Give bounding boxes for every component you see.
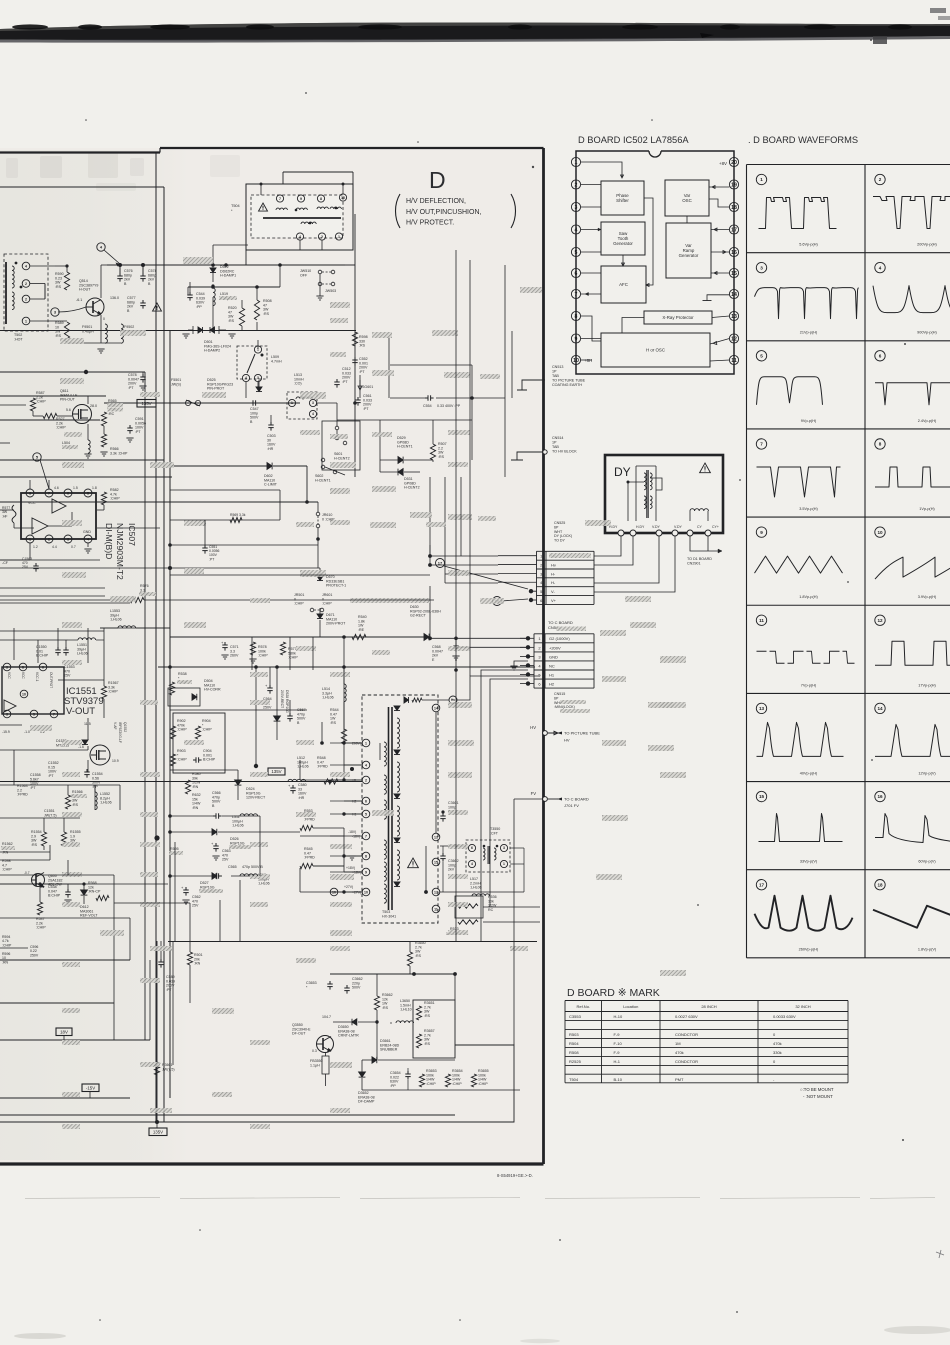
svg-text:9: 9: [365, 870, 367, 874]
svg-text:R503: R503: [569, 1032, 579, 1037]
diode D1555: [82, 740, 88, 745]
svg-text:+8V: +8V: [719, 161, 727, 166]
svg-text:Shifter: Shifter: [616, 198, 629, 203]
svg-text:CRNT-LMTR: CRNT-LMTR: [338, 1034, 359, 1038]
T503 primary winding: [384, 742, 386, 766]
svg-text::RS: :RS: [382, 1006, 389, 1010]
svg-text:H-1: H-1: [614, 1059, 621, 1064]
svg-text:H-10: H-10: [614, 1014, 623, 1019]
wire pin3 stub: [581, 206, 601, 208]
DY bottom pins: [618, 530, 624, 536]
svg-text:PROTECT-1: PROTECT-1: [326, 584, 346, 588]
capacitor C566: [213, 815, 216, 817]
wire x120 down: [119, 265, 121, 273]
svg-text::RS: :RS: [72, 803, 79, 807]
wire stubs to CN525 from mid: [429, 545, 431, 556]
hatched thick wire V-: [350, 598, 430, 603]
svg-text:NC: NC: [549, 663, 555, 668]
svg-text:18: 18: [877, 882, 883, 887]
svg-text:+27V): +27V): [352, 891, 361, 895]
svg-text::CHIP: :CHIP: [177, 758, 187, 762]
svg-text:HV: HV: [564, 738, 570, 743]
G2 rail: [170, 636, 424, 638]
wire bus vertical x164: [163, 187, 165, 1122]
pin number 17 callout: [436, 559, 445, 568]
svg-text:11.5: 11.5: [84, 722, 91, 726]
svg-text:2: 2: [25, 282, 27, 286]
junction x190: [189, 282, 191, 292]
wire rail y330: [0, 330, 356, 332]
coil L509 dashed box: [237, 346, 267, 379]
svg-text:H-CENT1: H-CENT1: [315, 478, 331, 482]
capacitor C544: [189, 292, 191, 295]
wire rail y420 segment: [337, 419, 380, 421]
svg-text:1.1μH: 1.1μH: [310, 1063, 320, 1067]
CN525 left wires: [498, 555, 537, 557]
faint fold line bottom: [25, 1198, 160, 1199]
wire CN513 tab: [522, 380, 545, 390]
T503 secondary winding: [397, 718, 400, 748]
wire y374 stub: [490, 373, 543, 375]
wire rails IC1551 zone: [0, 724, 22, 726]
svg-text:TO DY: TO DY: [554, 539, 566, 543]
wire DY CY pins to D1 board: [690, 536, 722, 551]
CN525 V- V+ dots: [529, 589, 533, 593]
svg-text:1: 1: [760, 177, 763, 182]
wire pin5 stub: [581, 251, 601, 253]
wire x430 down from CN525: [429, 600, 431, 637]
svg-text:H-CENT1: H-CENT1: [397, 445, 413, 449]
svg-text:NJM2903M-T2: NJM2903M-T2: [115, 523, 125, 580]
svg-text:1: 1: [29, 537, 31, 541]
svg-text:3: 3: [760, 265, 763, 270]
svg-text:IC507: IC507: [127, 523, 137, 546]
wire rail y1115: [0, 1114, 455, 1116]
svg-text:2: 2: [879, 177, 882, 182]
svg-text:COATING EARTH: COATING EARTH: [552, 383, 582, 387]
wire x256 vertical: [255, 667, 257, 766]
svg-text:V.DY: V.DY: [674, 525, 683, 529]
coil L519: [213, 288, 215, 306]
wire x514 vertical FV: [513, 799, 515, 1045]
resistor R1565: [61, 832, 66, 846]
wire ramp to pin16: [711, 251, 729, 254]
diode D522: [210, 268, 216, 273]
wire x160 vertical: [159, 477, 161, 528]
CN515 row6 wire down: [490, 679, 528, 907]
resistor R1564: [41, 832, 46, 846]
coil L513 dashed box: [287, 392, 317, 419]
svg-text:Hv: Hv: [551, 562, 556, 567]
left edge rail y948: [0, 947, 28, 949]
wire pin8 vertical to H or OSC: [581, 316, 601, 341]
svg-text::RC: :RC: [108, 412, 115, 416]
svg-text:PIN-PROT: PIN-PROT: [207, 387, 225, 391]
wire verticals bottom left: [13, 750, 15, 785]
DY winding taps: [628, 482, 644, 521]
svg-text::RS: :RS: [424, 1042, 431, 1046]
DY core lines: [646, 470, 648, 518]
capacitor C1550: [57, 647, 59, 650]
svg-text::CHIP: :CHIP: [322, 602, 332, 606]
svg-text::CHIP: :CHIP: [478, 1082, 488, 1086]
resistor R544: [341, 729, 346, 744]
svg-text:H/V DEFLECTION,: H/V DEFLECTION,: [406, 198, 466, 205]
capacitor C577: [142, 300, 144, 303]
schematic top border right segment: [160, 147, 544, 149]
resistor R576: [130, 597, 144, 602]
svg-text:2: 2: [25, 297, 27, 301]
svg-text::PT: :PT: [30, 786, 36, 790]
junction bus 838: [154, 835, 159, 840]
coil L511 sym: [240, 814, 258, 816]
svg-text:4.4: 4.4: [52, 545, 57, 549]
svg-text:C554: C554: [423, 404, 432, 408]
capacitor C547: [250, 402, 253, 404]
coil L1552: [95, 792, 97, 810]
svg-text:4: 4: [879, 265, 882, 270]
svg-text:40Vp-p(H): 40Vp-p(H): [800, 771, 818, 775]
svg-text:2: 2: [48, 537, 50, 541]
svg-text:5: 5: [575, 250, 578, 256]
gnd flyback: [348, 855, 355, 857]
resistor R566: [101, 434, 106, 447]
capacitor C591: [129, 425, 131, 428]
resistor R3654: [445, 1074, 450, 1087]
wires area N: [454, 974, 456, 1000]
svg-text:6P: 6P: [554, 525, 559, 529]
svg-text::PT: :PT: [128, 386, 134, 390]
resistor R577b: [280, 642, 285, 655]
wire y884 ext: [114, 883, 168, 885]
capacitor C503: [270, 422, 272, 425]
capacitor C554: [425, 397, 428, 399]
rail y781 long: [0, 781, 362, 783]
coil L504: [88, 440, 90, 453]
waveform cell 18: [875, 880, 885, 890]
capacitor C580: [292, 785, 294, 788]
flyback HV out diode: [404, 697, 409, 703]
svg-text:0.0027 630V: 0.0027 630V: [675, 1014, 698, 1019]
waveform cell 10: [875, 527, 885, 537]
svg-text:V+: V+: [551, 598, 557, 603]
svg-text:1M: 1M: [675, 1041, 681, 1046]
svg-text:○:TO BE MOUNT: ○:TO BE MOUNT: [800, 1087, 834, 1092]
transistor Q514: [86, 298, 104, 316]
svg-text:10.9: 10.9: [112, 759, 119, 763]
resistor R1566: [65, 795, 70, 809]
svg-text:T503: T503: [382, 910, 390, 914]
svg-text:TO PICTURE TUBE: TO PICTURE TUBE: [552, 379, 586, 383]
wire right of T504: [354, 214, 356, 265]
wire q514 top: [55, 265, 67, 267]
svg-text:TO C BOARD: TO C BOARD: [564, 797, 589, 802]
wire rail y420: [0, 419, 100, 421]
svg-text:15: 15: [434, 860, 438, 864]
svg-text::MINI(LOCK): :MINI(LOCK): [554, 705, 575, 709]
IC507 opamp1: [52, 499, 66, 513]
svg-text:500V: 500V: [352, 986, 361, 990]
IC507 opamp2: [32, 518, 48, 534]
svg-text:13: 13: [759, 706, 765, 711]
wire long from IC1551 to CN area: [100, 627, 170, 629]
junction: [84, 370, 88, 374]
svg-text:7: 7: [279, 197, 281, 201]
svg-text::CHIP: :CHIP: [452, 1082, 462, 1086]
svg-text:DF-OUT: DF-OUT: [292, 1032, 306, 1036]
resistor R3601: [154, 1062, 159, 1075]
svg-text:12: 12: [434, 890, 438, 894]
svg-text:7: 7: [48, 491, 50, 495]
T504 wires: [245, 184, 247, 265]
svg-text:3: 3: [575, 205, 578, 211]
svg-text::CHIP: :CHIP: [56, 426, 66, 430]
IC502 left pins 1-10: [571, 157, 580, 166]
IC502 block Saw: [601, 222, 645, 255]
jumper JW510: [318, 270, 322, 274]
18V box: [56, 1028, 72, 1036]
IC1551 pin 10 circ: [20, 690, 28, 698]
waveform cell 9: [756, 527, 766, 537]
waveform cell 6: [875, 351, 885, 361]
svg-text:AFC: AFC: [619, 282, 628, 287]
svg-text:12Vp-p(V): 12Vp-p(V): [918, 771, 936, 775]
svg-text:2kV: 2kV: [448, 868, 455, 872]
waveform cell 5: [756, 351, 766, 361]
capacitor C3653: [329, 981, 331, 984]
svg-text:1: 1: [25, 319, 27, 323]
svg-text:1: 1: [575, 160, 578, 166]
wire damper verticals: [256, 287, 258, 300]
svg-text:T3550: T3550: [490, 827, 500, 831]
svg-text::HR: :HR: [267, 447, 274, 451]
wire var osc to ramp: [686, 216, 688, 223]
IC1551 opamp: [4, 700, 16, 712]
svg-text::PT: :PT: [363, 407, 369, 411]
wire y568 long: [170, 567, 320, 569]
svg-text:2: 2: [365, 778, 367, 782]
svg-text:9Vp-p(H): 9Vp-p(H): [801, 419, 817, 423]
coil F9501: [105, 324, 107, 343]
svg-text:6: 6: [575, 271, 578, 277]
svg-text:21Vp-p(H): 21Vp-p(H): [800, 331, 818, 335]
photocopy hatch smudges: [183, 257, 213, 264]
svg-text:JW503: JW503: [325, 289, 336, 293]
svg-text:1: 1: [503, 862, 505, 866]
wire HV to picture tube: [544, 732, 546, 734]
svg-text:0.0033 630V: 0.0033 630V: [773, 1014, 796, 1019]
Q611 wires: [87, 396, 89, 404]
svg-text:Q1552: Q1552: [123, 722, 127, 732]
capacitor C512: [336, 379, 338, 382]
DY internal winding H: [635, 466, 637, 521]
gnd JW510: [319, 274, 321, 296]
svg-text:200V): 200V): [352, 742, 361, 746]
svg-text:200V-RECT: 200V-RECT: [280, 690, 284, 708]
L509 winding: [247, 354, 255, 373]
wire rail y974: [330, 973, 455, 975]
capacitor C3601: [442, 813, 444, 816]
IC502 outline: [576, 151, 734, 374]
svg-text:2.4Vp-p(H): 2.4Vp-p(H): [918, 419, 937, 423]
wire rail y1003: [0, 1002, 114, 1004]
wire bus vertical x156: [156, 148, 950, 156]
svg-text:20: 20: [731, 160, 737, 166]
svg-text:6P: 6P: [554, 696, 559, 700]
wire x318 vertical: [317, 545, 319, 568]
svg-text:J701 FV: J701 FV: [564, 803, 579, 808]
capacitor C576: [119, 273, 121, 276]
svg-text::CHIP: :CHIP: [108, 690, 118, 694]
diode D3652: [359, 1072, 366, 1077]
svg-text:H-OUT: H-OUT: [79, 288, 91, 292]
junction dots CN area: [454, 668, 458, 672]
svg-text::CHIP: :CHIP: [2, 943, 12, 947]
junction dots flyback: [342, 741, 345, 744]
svg-text:0 :CHIP: 0 :CHIP: [322, 517, 335, 521]
T502 pin wires: [30, 265, 55, 267]
svg-text:6: 6: [365, 799, 367, 803]
svg-text:+8H: +8H: [584, 358, 592, 363]
diode D501 pair: [198, 327, 203, 333]
svg-text:B:CHIP: B:CHIP: [48, 894, 61, 898]
wire Q611 gate: [57, 415, 72, 417]
coil L517: [472, 894, 490, 896]
capacitor C3654: [407, 1071, 409, 1074]
IC1551 pin box: [2, 667, 64, 714]
wire rail y1098: [0, 1097, 130, 1099]
capacitor C567: [289, 713, 291, 716]
svg-text:11: 11: [731, 358, 737, 364]
T502 pins: [22, 262, 30, 270]
svg-text::PP: :PP: [390, 1084, 396, 1088]
svg-text:25V: 25V: [22, 565, 29, 569]
svg-text:-1.0: -1.0: [24, 730, 30, 734]
verticals lower mid: [219, 900, 221, 941]
svg-text::RE: :RE: [358, 628, 365, 632]
connector CN515 table: [534, 633, 594, 635]
svg-text:3.9Vp-p(H): 3.9Vp-p(H): [918, 595, 937, 599]
svg-text:R504: R504: [569, 1041, 579, 1046]
resistor R507: [430, 444, 435, 460]
svg-text::CHIP: :CHIP: [294, 602, 304, 606]
T502 winding: [12, 266, 14, 288]
note parens: [396, 194, 401, 228]
svg-text:1.8: 1.8: [92, 486, 97, 490]
svg-text:6: 6: [67, 491, 69, 495]
svg-text:Generator: Generator: [613, 241, 633, 246]
svg-text:DF-DAMP: DF-DAMP: [358, 1100, 375, 1104]
svg-text::CHIP: :CHIP: [258, 654, 268, 658]
svg-text:6: 6: [879, 353, 882, 358]
svg-text:F9502: F9502: [124, 325, 134, 329]
svg-text:CN513: CN513: [552, 365, 563, 369]
resistor R545: [300, 863, 313, 868]
svg-text:25V: 25V: [222, 858, 229, 862]
svg-text:4: 4: [25, 264, 27, 268]
svg-text:120V-RECT: 120V-RECT: [246, 796, 266, 800]
svg-text::CHIP: :CHIP: [36, 926, 46, 930]
wire var osc to pin19: [709, 186, 729, 189]
IC502 block H or OSC: [601, 333, 710, 367]
wire CN525 row wires long: [430, 555, 498, 557]
IC502 block Var: [665, 180, 709, 216]
bottom corner smudges: [14, 1333, 66, 1339]
T504 core: [263, 217, 341, 219]
resistor R589: [64, 322, 69, 342]
svg-text:10: 10: [877, 530, 883, 535]
diode D612: [81, 890, 88, 895]
svg-text:900Vp-p(H): 900Vp-p(H): [917, 331, 937, 335]
resistor R598: [352, 332, 357, 346]
svg-text:-1.6: -1.6: [78, 745, 84, 749]
diode D602: [267, 463, 272, 470]
svg-text:3: 3: [67, 537, 69, 541]
coil FB3550: [322, 1056, 329, 1074]
svg-text:FV: FV: [531, 791, 537, 796]
resistor R553: [300, 825, 313, 830]
diode D524: [235, 780, 242, 785]
svg-text:SG601: SG601: [362, 385, 373, 389]
wire x512 vertical: [511, 331, 513, 398]
fuse F5501: [185, 400, 190, 405]
svg-text:DI-M(B)D: DI-M(B)D: [104, 523, 114, 559]
coil L3650: [396, 1021, 414, 1023]
svg-text::RS: :RS: [438, 455, 445, 459]
svg-text:GND: GND: [549, 654, 558, 659]
photocopy specks: [532, 166, 534, 168]
capacitor C538: [67, 889, 69, 892]
schematic top border step: [159, 148, 161, 153]
-15V box: [82, 1084, 99, 1092]
IC502 top notch: [649, 145, 661, 157]
coil L514: [344, 684, 346, 702]
svg-text:4: 4: [312, 412, 314, 416]
svg-text:260Vp-p(H): 260Vp-p(H): [799, 948, 819, 952]
T503 HV diodes: [394, 706, 400, 711]
svg-text:7: 7: [365, 834, 367, 838]
svg-text:WHT: WHT: [554, 530, 563, 534]
135V box label: [137, 400, 156, 408]
wire left edge stubs: [0, 282, 30, 284]
svg-text:8: 8: [879, 442, 882, 447]
T3550 pins: [468, 844, 475, 851]
Q514 collector wire: [100, 265, 102, 298]
switch S601: [335, 426, 339, 430]
svg-text::FPRD: :FPRD: [304, 818, 315, 822]
svg-text::RS: :RS: [330, 721, 337, 725]
wire rail y460: [0, 459, 164, 461]
wire from flyback to y941: [419, 923, 421, 941]
svg-text:H-CENT2: H-CENT2: [334, 456, 350, 460]
svg-text:JW(S): JW(S): [171, 382, 181, 386]
wire rail y502: [0, 501, 318, 503]
svg-text::LHL06: :LHL06: [322, 696, 334, 700]
L509 pins: [254, 346, 261, 353]
wire DY pin3 to CN525: [594, 536, 659, 583]
wire pin2 to phase shifter: [581, 184, 601, 186]
verticals M: [113, 884, 115, 1040]
svg-text::RN: :RN: [2, 960, 9, 964]
svg-text:135V: 135V: [271, 769, 281, 774]
svg-text::RS: :RS: [31, 843, 38, 847]
svg-text:6: 6: [42, 665, 44, 669]
svg-text::CHIP: :CHIP: [426, 1082, 436, 1086]
svg-text:H/V OUT,PINCUSHION,: H/V OUT,PINCUSHION,: [406, 209, 482, 216]
wire rail y265: [107, 264, 345, 266]
svg-text:1.8Vp-p(V): 1.8Vp-p(V): [918, 948, 937, 952]
resistor R582: [101, 492, 106, 505]
